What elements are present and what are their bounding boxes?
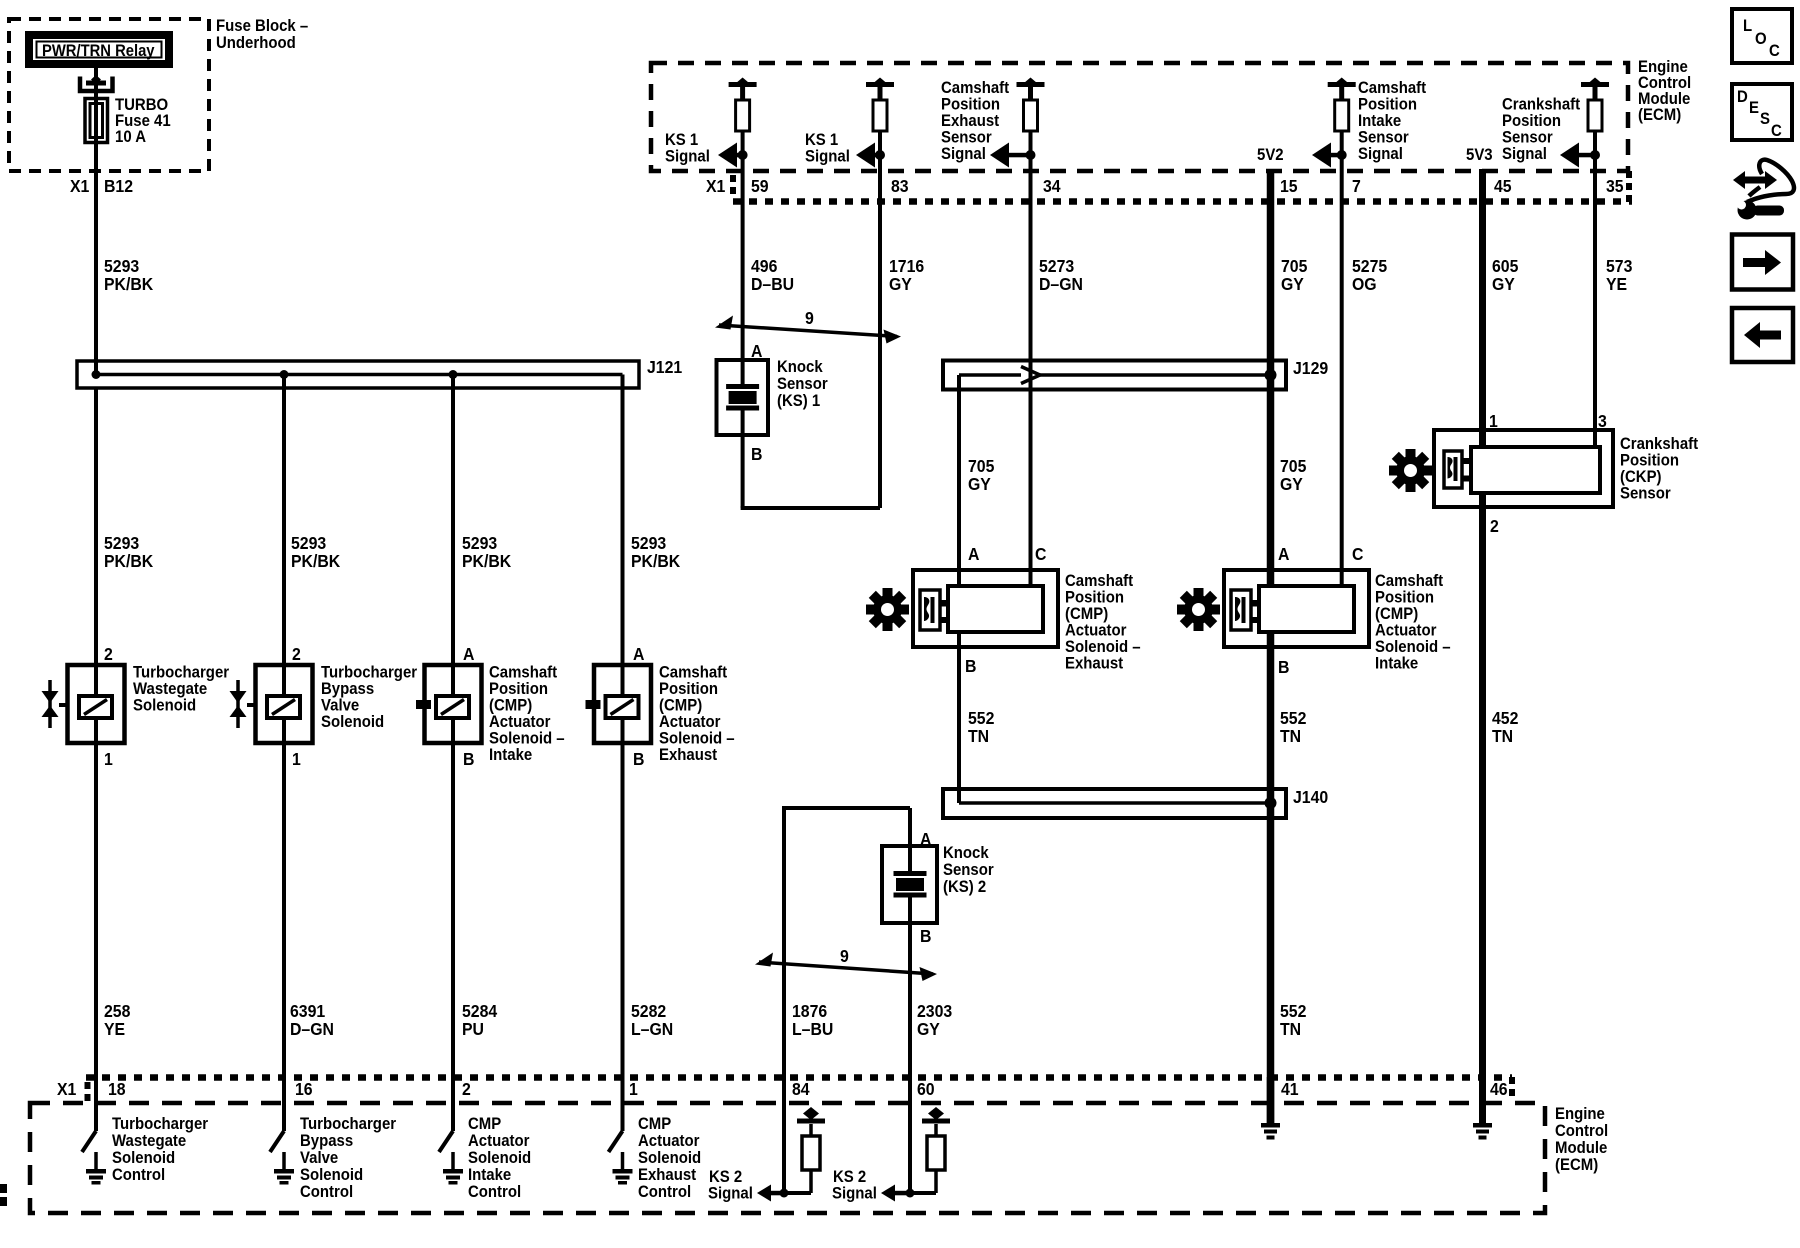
svg-text:X1: X1 <box>57 1079 76 1099</box>
ground pin46 <box>1479 1077 1486 1124</box>
svg-text:Control: Control <box>468 1183 521 1201</box>
right dotted divider <box>1626 171 1632 203</box>
harness routing icon <box>1733 160 1794 220</box>
svg-text:J121: J121 <box>647 357 682 377</box>
svg-text:Module: Module <box>1555 1139 1607 1157</box>
svg-text:L–BU: L–BU <box>792 1019 833 1039</box>
svg-text:PK/BK: PK/BK <box>104 274 154 294</box>
svg-text:Camshaft: Camshaft <box>489 664 558 682</box>
pin labels top row <box>706 176 1624 196</box>
svg-text:41: 41 <box>1281 1079 1299 1099</box>
wire label 5293 PK/BK <box>104 256 154 294</box>
svg-text:2: 2 <box>462 1079 471 1099</box>
pin row dotted line <box>733 198 1632 205</box>
svg-text:Sensor: Sensor <box>943 861 994 879</box>
svg-text:1: 1 <box>1489 411 1498 431</box>
ground switch pin18 <box>82 1131 106 1185</box>
svg-text:Solenoid –: Solenoid – <box>1065 638 1141 656</box>
arrow camshaft intake signal pin7 <box>1312 143 1347 168</box>
svg-text:GY: GY <box>968 474 992 494</box>
svg-text:TN: TN <box>1280 726 1301 746</box>
svg-text:O: O <box>1755 30 1767 48</box>
svg-text:Position: Position <box>1065 589 1124 607</box>
svg-text:34: 34 <box>1043 176 1061 196</box>
shield line 9 (upper) <box>719 325 897 337</box>
svg-text:15: 15 <box>1280 176 1298 196</box>
svg-text:OG: OG <box>1352 274 1377 294</box>
svg-text:GY: GY <box>1281 274 1305 294</box>
svg-text:(CKP): (CKP) <box>1620 468 1662 486</box>
svg-text:Sensor: Sensor <box>1502 129 1553 147</box>
junction dot <box>449 370 458 379</box>
svg-text:D: D <box>1737 88 1748 106</box>
svg-text:L–GN: L–GN <box>631 1019 673 1039</box>
svg-text:(CMP): (CMP) <box>1375 605 1418 623</box>
svg-text:Signal: Signal <box>708 1185 753 1203</box>
svg-text:Turbocharger: Turbocharger <box>133 664 229 682</box>
svg-text:Fuse Block –: Fuse Block – <box>216 17 308 35</box>
svg-text:Underhood: Underhood <box>216 34 296 52</box>
svg-text:Signal: Signal <box>665 148 710 166</box>
page edge marks <box>0 1184 7 1193</box>
svg-text:Turbocharger: Turbocharger <box>300 1115 396 1133</box>
wire 2303 GY (KS2 to pin 60) <box>908 808 912 871</box>
wire exhaust B 552 TN <box>957 632 961 803</box>
svg-text:83: 83 <box>891 176 909 196</box>
back arrow icon box <box>1732 308 1793 362</box>
svg-text:TN: TN <box>968 726 989 746</box>
svg-text:TN: TN <box>1492 726 1513 746</box>
svg-text:Actuator: Actuator <box>659 713 720 731</box>
svg-text:Control: Control <box>300 1183 353 1201</box>
shield line 9 (lower) <box>759 962 933 974</box>
wire 705 GY branch to CMP exhaust A <box>957 375 961 586</box>
junction dot <box>1265 797 1277 809</box>
svg-text:9: 9 <box>840 946 849 966</box>
svg-text:Wastegate: Wastegate <box>112 1132 186 1150</box>
svg-text:A: A <box>968 544 979 564</box>
svg-text:Actuator: Actuator <box>638 1132 699 1150</box>
wire 5293 PK/BK to CMP intake solenoid <box>451 375 455 697</box>
label crankshaft position CKP sensor <box>1620 435 1699 503</box>
fuse holder clip <box>80 77 113 92</box>
svg-text:Intake: Intake <box>489 746 532 764</box>
svg-text:Control: Control <box>112 1166 165 1184</box>
wire 705 GY (pin 15, thick) <box>1267 169 1275 586</box>
wire 5284 PU <box>451 718 455 1131</box>
svg-text:Valve: Valve <box>300 1149 338 1167</box>
fuse block underhood dashed box <box>9 19 209 171</box>
ECM label <box>1555 1105 1608 1174</box>
splice pack J121 <box>77 361 639 388</box>
svg-text:Signal: Signal <box>805 148 850 166</box>
label Knock Sensor KS2 <box>943 844 994 896</box>
svg-text:Exhaust: Exhaust <box>1065 655 1124 673</box>
svg-text:Control: Control <box>1555 1122 1608 1140</box>
svg-text:Position: Position <box>1358 96 1417 114</box>
svg-text:Valve: Valve <box>321 697 359 715</box>
svg-text:Exhaust: Exhaust <box>659 746 718 764</box>
svg-text:59: 59 <box>751 176 769 196</box>
ground pin41 <box>1267 1077 1275 1124</box>
svg-text:KS 2: KS 2 <box>833 1168 866 1186</box>
svg-text:B: B <box>920 926 931 946</box>
PWR/TRN relay K <box>25 31 173 68</box>
svg-text:10 A: 10 A <box>115 128 146 146</box>
svg-text:Crankshaft: Crankshaft <box>1502 96 1581 114</box>
pin X1 B12 <box>70 176 133 196</box>
wire KS1 signal 496 D-BU (pin 59) <box>741 85 745 384</box>
splice pack J140 <box>943 789 1286 818</box>
label Knock Sensor KS1 <box>777 358 828 410</box>
svg-text:5V3: 5V3 <box>1466 146 1493 164</box>
svg-text:X1: X1 <box>706 176 725 196</box>
turbocharger wastegate solenoid <box>68 665 125 743</box>
right dotted divider <box>1509 1077 1515 1098</box>
svg-text:Knock: Knock <box>943 844 989 862</box>
svg-text:B: B <box>965 656 976 676</box>
svg-text:PU: PU <box>462 1019 484 1039</box>
svg-text:A: A <box>751 341 762 361</box>
svg-text:Turbocharger: Turbocharger <box>112 1115 208 1133</box>
svg-text:A: A <box>463 644 474 664</box>
ECM internal signal labels <box>665 79 1581 166</box>
ground switch pin16 <box>270 1131 294 1185</box>
ECM dashed box bottom <box>30 1103 1545 1213</box>
svg-text:(CMP): (CMP) <box>489 697 532 715</box>
svg-text:2: 2 <box>292 644 301 664</box>
svg-text:Solenoid –: Solenoid – <box>489 730 565 748</box>
svg-text:CMP: CMP <box>468 1115 502 1133</box>
svg-text:Camshaft: Camshaft <box>941 79 1010 97</box>
svg-text:Actuator: Actuator <box>1375 622 1436 640</box>
bias resistor pin84 <box>784 1107 825 1193</box>
svg-text:Camshaft: Camshaft <box>1358 79 1427 97</box>
svg-text:X1: X1 <box>70 176 89 196</box>
wire 5293 PK/BK to wastegate solenoid <box>94 388 98 696</box>
svg-text:Actuator: Actuator <box>1065 622 1126 640</box>
svg-text:C: C <box>1771 122 1782 140</box>
fuse TURBO Fuse 41 10A <box>85 99 108 143</box>
svg-text:5V2: 5V2 <box>1257 146 1284 164</box>
svg-text:9: 9 <box>805 308 814 328</box>
svg-text:2: 2 <box>1490 516 1499 536</box>
svg-text:Position: Position <box>489 680 548 698</box>
svg-text:PK/BK: PK/BK <box>462 551 512 571</box>
svg-text:Solenoid: Solenoid <box>112 1149 175 1167</box>
svg-text:1: 1 <box>629 1079 638 1099</box>
svg-text:45: 45 <box>1494 176 1512 196</box>
svg-text:Sensor: Sensor <box>941 129 992 147</box>
svg-text:Exhaust: Exhaust <box>941 112 1000 130</box>
reluctor gear <box>1380 440 1441 501</box>
svg-text:YE: YE <box>1606 274 1627 294</box>
svg-text:(CMP): (CMP) <box>659 697 702 715</box>
svg-text:B: B <box>751 444 762 464</box>
svg-text:Bypass: Bypass <box>300 1132 353 1150</box>
svg-text:Actuator: Actuator <box>489 713 550 731</box>
X1 connector dotted divider <box>730 175 736 197</box>
bottom wire labels <box>104 1001 1306 1039</box>
svg-text:Camshaft: Camshaft <box>1375 572 1444 590</box>
KS2 signal arrow pin84 <box>757 1185 789 1202</box>
svg-text:TN: TN <box>1280 1019 1301 1039</box>
svg-text:PK/BK: PK/BK <box>291 551 341 571</box>
svg-text:A: A <box>920 829 931 849</box>
CMP actuator solenoid intake <box>1224 570 1369 647</box>
svg-text:Intake: Intake <box>1375 655 1418 673</box>
svg-text:Intake: Intake <box>1358 112 1401 130</box>
svg-text:Position: Position <box>1375 589 1434 607</box>
CMP actuator solenoid intake (left column) <box>425 665 482 743</box>
control labels <box>112 1115 701 1201</box>
svg-text:(KS) 1: (KS) 1 <box>777 392 820 410</box>
svg-text:Intake: Intake <box>468 1166 511 1184</box>
wire 5293 PK/BK to bypass solenoid <box>282 375 286 697</box>
wire number labels top row <box>751 256 1632 294</box>
svg-text:B: B <box>1278 657 1289 677</box>
pin labels bottom row <box>57 1079 1508 1099</box>
wire 5273 D-GN (pin 34) <box>1029 85 1033 586</box>
wire 6391 D-GN <box>282 718 286 1131</box>
svg-text:3: 3 <box>1598 411 1607 431</box>
svg-text:Solenoid –: Solenoid – <box>659 730 735 748</box>
svg-text:Signal: Signal <box>1358 145 1403 163</box>
svg-text:PK/BK: PK/BK <box>631 551 681 571</box>
svg-text:D–GN: D–GN <box>1039 274 1083 294</box>
junction dot <box>280 370 289 379</box>
wire 452 TN (thick) <box>1479 493 1486 1124</box>
svg-text:Knock: Knock <box>777 358 823 376</box>
svg-text:D–BU: D–BU <box>751 274 794 294</box>
svg-text:(KS) 2: (KS) 2 <box>943 878 986 896</box>
svg-text:Signal: Signal <box>1502 145 1547 163</box>
ECM dashed box top <box>651 63 1628 171</box>
wire 5293 PK/BK to CMP exhaust solenoid <box>621 375 625 697</box>
svg-text:E: E <box>1749 99 1759 117</box>
arrow KS1 signal pin83 <box>856 143 885 168</box>
svg-text:C: C <box>1769 42 1780 60</box>
wire label 452 TN <box>1492 708 1518 746</box>
wire labels 552 TN <box>968 708 1306 746</box>
svg-text:PK/BK: PK/BK <box>104 551 154 571</box>
svg-text:Solenoid: Solenoid <box>321 713 384 731</box>
svg-text:C: C <box>1352 544 1363 564</box>
wire 5275 OG (pin 7) <box>1340 85 1344 586</box>
svg-text:Crankshaft: Crankshaft <box>1620 435 1699 453</box>
arrow camshaft exhaust signal pin34 <box>990 143 1036 168</box>
svg-text:B: B <box>463 749 474 769</box>
ECM pin symbols <box>729 78 757 132</box>
svg-text:J129: J129 <box>1293 358 1328 378</box>
svg-text:7: 7 <box>1352 176 1361 196</box>
knock sensor KS2 box <box>882 846 937 923</box>
arrow crankshaft signal pin35 <box>1560 143 1600 168</box>
svg-text:(CMP): (CMP) <box>1065 605 1108 623</box>
KS2 signal arrow pin60 <box>881 1185 915 1202</box>
svg-text:KS 1: KS 1 <box>805 131 838 149</box>
svg-text:18: 18 <box>108 1079 126 1099</box>
svg-text:Turbocharger: Turbocharger <box>321 664 417 682</box>
svg-text:GY: GY <box>889 274 913 294</box>
svg-text:PWR/TRN Relay: PWR/TRN Relay <box>42 42 155 60</box>
svg-text:1: 1 <box>104 749 113 769</box>
forward arrow icon box <box>1732 235 1793 290</box>
reluctor gear <box>857 579 918 640</box>
svg-text:YE: YE <box>104 1019 125 1039</box>
svg-text:Position: Position <box>941 96 1000 114</box>
svg-text:Sensor: Sensor <box>1358 129 1409 147</box>
svg-text:KS 2: KS 2 <box>709 1168 742 1186</box>
svg-text:35: 35 <box>1606 176 1624 196</box>
svg-text:(ECM): (ECM) <box>1638 106 1681 124</box>
svg-text:Solenoid: Solenoid <box>468 1149 531 1167</box>
svg-text:B12: B12 <box>104 176 133 196</box>
svg-text:J140: J140 <box>1293 787 1328 807</box>
splice pack J129 <box>943 361 1286 390</box>
svg-text:Exhaust: Exhaust <box>638 1166 697 1184</box>
svg-text:GY: GY <box>1280 474 1304 494</box>
svg-text:60: 60 <box>917 1079 935 1099</box>
pin row dotted line <box>86 1074 1512 1081</box>
bias resistor pin60 <box>910 1107 950 1193</box>
X1 dotted divider <box>85 1082 91 1101</box>
label camshaft position CMP actuator solenoid intake <box>1375 572 1451 673</box>
svg-text:Control: Control <box>638 1183 691 1201</box>
svg-text:A: A <box>1278 544 1289 564</box>
label camshaft position CMP actuator solenoid exhaust <box>1065 572 1141 673</box>
svg-text:Bypass: Bypass <box>321 680 374 698</box>
svg-text:Camshaft: Camshaft <box>659 664 728 682</box>
knock sensor KS1 box <box>717 360 769 435</box>
svg-text:B: B <box>633 749 644 769</box>
svg-text:16: 16 <box>295 1079 313 1099</box>
svg-text:(ECM): (ECM) <box>1555 1156 1598 1174</box>
svg-text:C: C <box>1035 544 1046 564</box>
label Fuse Block Underhood <box>216 17 308 52</box>
ground switch pin1 <box>609 1131 633 1185</box>
DESC icon box <box>1732 84 1792 140</box>
svg-text:46: 46 <box>1490 1079 1508 1099</box>
svg-text:1: 1 <box>292 749 301 769</box>
ECM label <box>1638 58 1691 124</box>
svg-text:Position: Position <box>1620 452 1679 470</box>
svg-text:KS 1: KS 1 <box>665 131 698 149</box>
svg-text:GY: GY <box>917 1019 941 1039</box>
wire B12 5293 PK/BK from fuse to J121 <box>94 68 98 375</box>
svg-text:S: S <box>1760 110 1770 128</box>
junction dot <box>92 370 101 379</box>
svg-text:Solenoid: Solenoid <box>133 697 196 715</box>
LOC icon box <box>1732 9 1792 63</box>
svg-text:CMP: CMP <box>638 1115 672 1133</box>
arrow KS1 signal pin59 <box>718 143 748 168</box>
svg-text:84: 84 <box>792 1079 810 1099</box>
wire labels 705 GY <box>968 456 1306 494</box>
wire labels 5293 PK/BK x4 <box>104 533 681 571</box>
wire KS1 B return <box>741 411 745 509</box>
svg-text:Sensor: Sensor <box>1620 485 1671 503</box>
svg-text:Sensor: Sensor <box>777 375 828 393</box>
wire 573 YE (pin 35) <box>1593 85 1597 447</box>
wire intake B 552 TN (thick) <box>1267 632 1275 1124</box>
svg-text:Solenoid: Solenoid <box>300 1166 363 1184</box>
svg-text:Wastegate: Wastegate <box>133 680 207 698</box>
reluctor gear <box>1168 579 1229 640</box>
svg-text:Solenoid: Solenoid <box>638 1149 701 1167</box>
turbocharger bypass valve solenoid <box>256 665 313 743</box>
svg-text:Position: Position <box>659 680 718 698</box>
svg-text:A: A <box>633 644 644 664</box>
svg-text:D–GN: D–GN <box>290 1019 334 1039</box>
svg-text:Camshaft: Camshaft <box>1065 572 1134 590</box>
svg-text:Position: Position <box>1502 112 1561 130</box>
svg-text:Signal: Signal <box>832 1185 877 1203</box>
svg-text:GY: GY <box>1492 274 1516 294</box>
ground switch pin2 <box>439 1131 463 1185</box>
svg-text:L: L <box>1743 17 1752 35</box>
CMP actuator solenoid exhaust <box>913 570 1058 647</box>
junction dot <box>1265 369 1277 381</box>
wire 5282 L-GN <box>621 718 625 1131</box>
crankshaft position CKP sensor <box>1434 430 1613 507</box>
svg-text:Actuator: Actuator <box>468 1132 529 1150</box>
wire 258 YE <box>94 718 98 1131</box>
svg-text:2: 2 <box>104 644 113 664</box>
wire 1876 L-BU (pin 84 loop) <box>782 808 786 1193</box>
svg-text:Solenoid –: Solenoid – <box>1375 638 1451 656</box>
wire 605 GY (pin 45, thick) <box>1479 169 1486 447</box>
svg-text:Engine: Engine <box>1555 1105 1605 1123</box>
wire KS1 signal 1716 GY (pin 83) <box>878 85 882 508</box>
CMP actuator solenoid exhaust (left column) <box>594 665 651 743</box>
svg-text:Signal: Signal <box>941 145 986 163</box>
